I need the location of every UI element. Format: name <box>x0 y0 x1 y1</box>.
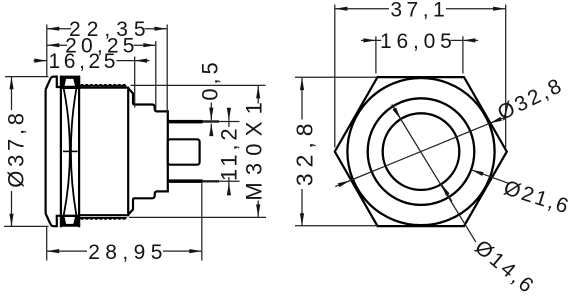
flange waist line <box>63 150 78 152</box>
dim 37,1 lines <box>335 8 389 10</box>
svg-text:Ø14,6: Ø14,6 <box>470 236 539 299</box>
svg-text:Ø21,6: Ø21,6 <box>501 176 571 218</box>
dim 20,25 lines <box>47 44 67 46</box>
hex nut outline <box>335 77 507 226</box>
thread bumps bottom <box>79 217 126 220</box>
extension line cap diameter bottom <box>4 225 49 227</box>
extension line hex left vertex <box>334 5 336 148</box>
middle circle dia 21.6 <box>368 98 475 205</box>
extension line pin bottom tail <box>203 180 220 182</box>
extension line pin tips <box>201 183 203 260</box>
extension line hex bottom flat left side <box>295 225 378 227</box>
svg-text:Ø37,8: Ø37,8 <box>3 109 28 187</box>
svg-text:37,1: 37,1 <box>390 0 449 21</box>
extension line 16.25 <box>134 57 136 108</box>
svg-text:0,5: 0,5 <box>197 58 222 100</box>
dim 16,25 lines <box>34 60 47 62</box>
button cap outline (head, front face left) <box>46 77 60 227</box>
extension line top flat right <box>462 36 464 73</box>
central connector block <box>168 139 200 164</box>
dim 0,5 arrows <box>210 103 212 121</box>
rear housing stepped outline <box>128 88 168 214</box>
extension line 20.25 <box>155 41 157 111</box>
svg-text:16,05: 16,05 <box>380 30 457 53</box>
extension line cap diameter top <box>5 76 49 78</box>
extension line top flat left <box>375 36 377 73</box>
extension line datum bottom <box>46 226 48 261</box>
thread crest line bottom <box>79 214 129 216</box>
svg-text:32,8: 32,8 <box>292 117 318 186</box>
thread bumps top <box>79 84 126 87</box>
extension line M30 crest bottom <box>129 216 266 218</box>
extension line pin top tail <box>203 120 220 122</box>
flange inner contour right <box>71 89 76 215</box>
dim 22,35 lines <box>47 28 71 30</box>
dim dia 37.8 line <box>11 77 13 110</box>
leader dia 14,6 <box>392 105 476 242</box>
barrel end face <box>127 87 129 217</box>
terminal pin bottom <box>168 179 203 183</box>
leader dia 32,8 <box>335 181 350 187</box>
svg-text:16,25: 16,25 <box>49 50 120 73</box>
svg-text:M30X1: M30X1 <box>241 95 266 201</box>
extension line 22.35 <box>166 25 168 115</box>
extension line M30 crest top <box>131 84 266 86</box>
flange inner contour left <box>64 89 70 215</box>
dim 16,05 lines <box>361 39 376 41</box>
dim M30X1 line <box>257 86 259 104</box>
dim 11,2 line <box>228 109 230 121</box>
outer circle dia 32.8 <box>347 78 494 225</box>
extension line hex top flat left side <box>295 76 378 78</box>
flange / seal washer outer edges <box>60 76 62 228</box>
extension line hex right vertex <box>505 5 507 148</box>
flange bottom block <box>60 215 80 227</box>
extension line datum (cap front) top <box>46 25 48 77</box>
dim 28,95 lines <box>47 250 87 252</box>
flange top block <box>60 76 80 89</box>
svg-text:28,95: 28,95 <box>88 241 168 264</box>
thread crest line top <box>79 87 129 89</box>
svg-text:11,2: 11,2 <box>217 125 242 181</box>
inner circle dia 14.6 <box>383 113 460 190</box>
dim 32,8 line <box>301 78 303 120</box>
terminal pin top <box>168 120 203 124</box>
leader dia 21,6 <box>471 170 508 184</box>
